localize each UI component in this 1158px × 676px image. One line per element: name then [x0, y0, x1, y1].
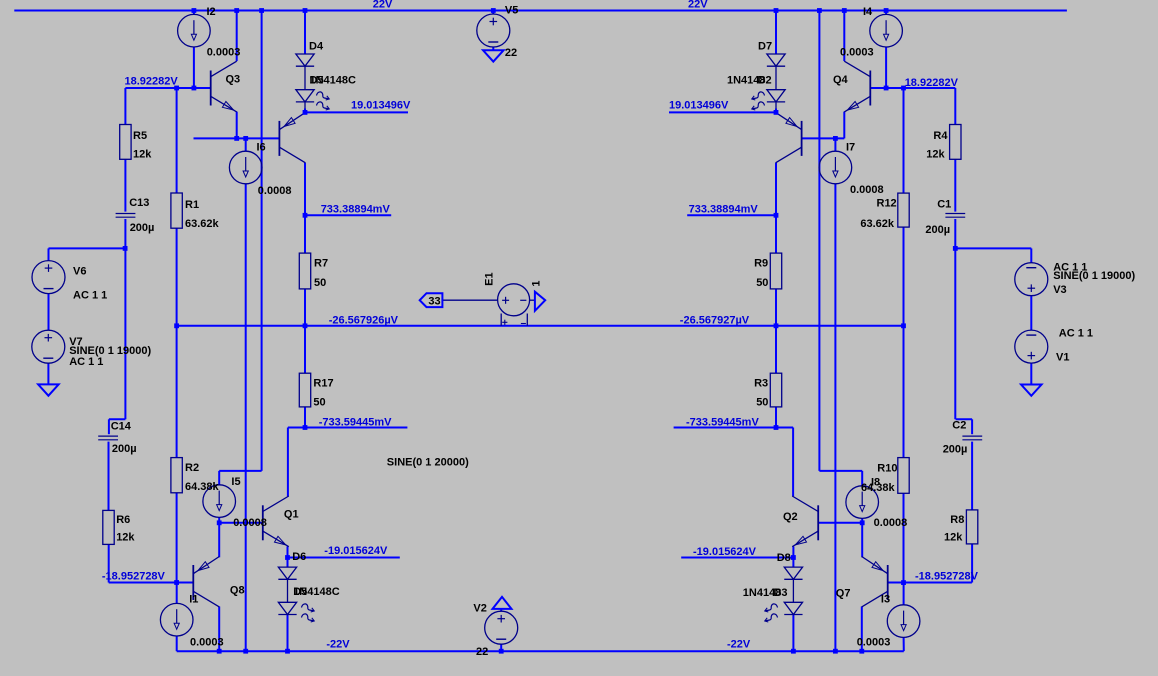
svg-text:I1: I1 [189, 594, 198, 606]
svg-text:-22V: -22V [326, 639, 350, 651]
svg-text:I2: I2 [207, 6, 216, 18]
svg-text:-19.015624V: -19.015624V [324, 545, 388, 557]
svg-text:733.38894mV: 733.38894mV [321, 203, 391, 215]
svg-text:50: 50 [756, 397, 768, 409]
svg-text:AC 1 1: AC 1 1 [1059, 328, 1093, 340]
svg-text:D5: D5 [310, 75, 324, 87]
svg-text:733.38894mV: 733.38894mV [689, 203, 759, 215]
svg-text:D6: D6 [292, 551, 306, 563]
svg-text:18.92282V: 18.92282V [905, 77, 959, 89]
svg-text:V3: V3 [1053, 284, 1066, 296]
svg-text:R1: R1 [185, 199, 199, 211]
svg-text:19.013496V: 19.013496V [669, 100, 729, 112]
svg-text:I4: I4 [863, 6, 873, 18]
svg-text:33: 33 [428, 295, 440, 307]
svg-text:R10: R10 [877, 463, 897, 475]
svg-text:D5: D5 [293, 586, 307, 598]
svg-text:-26.567926µV: -26.567926µV [329, 315, 399, 327]
svg-text:V1: V1 [1056, 352, 1069, 364]
svg-text:-18.952728V: -18.952728V [102, 571, 166, 583]
svg-text:I8: I8 [871, 477, 880, 489]
svg-text:200µ: 200µ [112, 443, 137, 455]
svg-text:0.0003: 0.0003 [190, 637, 224, 649]
svg-text:Q3: Q3 [226, 74, 241, 86]
svg-text:V5: V5 [505, 5, 518, 17]
svg-text:63.62k: 63.62k [860, 218, 895, 230]
svg-text:C1: C1 [937, 199, 951, 211]
svg-text:200µ: 200µ [925, 224, 950, 236]
svg-text:Q1: Q1 [284, 509, 299, 521]
svg-text:200µ: 200µ [130, 222, 155, 234]
svg-text:Q2: Q2 [783, 511, 798, 523]
svg-text:-19.015624V: -19.015624V [693, 546, 757, 558]
svg-text:Q8: Q8 [230, 585, 245, 597]
svg-text:R17: R17 [313, 378, 333, 390]
svg-text:63.62k: 63.62k [185, 218, 220, 230]
svg-text:12k: 12k [926, 149, 945, 161]
svg-text:E1: E1 [484, 272, 496, 285]
svg-text:D7: D7 [758, 41, 772, 53]
svg-text:12k: 12k [133, 149, 152, 161]
svg-text:22V: 22V [688, 0, 708, 11]
svg-text:0.0008: 0.0008 [233, 517, 267, 529]
svg-text:R9: R9 [754, 258, 768, 270]
svg-text:12k: 12k [944, 532, 963, 544]
svg-text:AC 1 1: AC 1 1 [73, 290, 107, 302]
svg-text:64.38k: 64.38k [185, 481, 220, 493]
svg-text:18.92282V: 18.92282V [125, 76, 179, 88]
svg-text:22: 22 [505, 47, 517, 59]
svg-text:22: 22 [476, 646, 488, 658]
svg-text:D8: D8 [777, 552, 791, 564]
svg-text:R6: R6 [116, 514, 130, 526]
svg-text:C13: C13 [129, 197, 149, 209]
svg-text:R3: R3 [754, 378, 768, 390]
svg-text:-733.59445mV: -733.59445mV [686, 416, 759, 428]
svg-text:R8: R8 [950, 514, 964, 526]
svg-text:AC 1 1: AC 1 1 [69, 356, 103, 368]
svg-text:12k: 12k [116, 532, 135, 544]
svg-text:D2: D2 [758, 75, 772, 87]
svg-text:1: 1 [531, 280, 543, 286]
svg-text:50: 50 [313, 397, 325, 409]
svg-text:R5: R5 [133, 130, 147, 142]
svg-text:0.0008: 0.0008 [874, 517, 908, 529]
svg-text:22V: 22V [373, 0, 393, 11]
svg-text:0.0003: 0.0003 [840, 47, 874, 59]
svg-text:R12: R12 [877, 198, 897, 210]
svg-text:R2: R2 [185, 462, 199, 474]
svg-text:I7: I7 [846, 142, 855, 154]
svg-text:0.0008: 0.0008 [258, 185, 292, 197]
svg-text:I3: I3 [881, 594, 890, 606]
svg-text:0.0003: 0.0003 [857, 637, 891, 649]
svg-text:200µ: 200µ [943, 444, 968, 456]
svg-text:D3: D3 [773, 587, 787, 599]
svg-text:C2: C2 [952, 420, 966, 432]
svg-text:0.0008: 0.0008 [850, 184, 884, 196]
svg-text:SINE(0 1 19000): SINE(0 1 19000) [1053, 270, 1135, 282]
svg-text:I5: I5 [231, 476, 240, 488]
svg-text:R7: R7 [314, 258, 328, 270]
svg-text:D4: D4 [309, 41, 324, 53]
svg-text:I6: I6 [257, 142, 266, 154]
svg-text:R4: R4 [933, 130, 948, 142]
svg-text:50: 50 [314, 277, 326, 289]
svg-text:C14: C14 [111, 421, 132, 433]
svg-text:-22V: -22V [727, 639, 751, 651]
svg-text:-26.567927µV: -26.567927µV [680, 315, 750, 327]
svg-text:19.013496V: 19.013496V [351, 100, 411, 112]
svg-text:V6: V6 [73, 266, 86, 278]
svg-text:SINE(0 1 20000): SINE(0 1 20000) [387, 457, 469, 469]
svg-text:V2: V2 [473, 603, 486, 615]
svg-text:0.0003: 0.0003 [207, 47, 241, 59]
svg-text:50: 50 [756, 277, 768, 289]
svg-text:Q7: Q7 [836, 588, 851, 600]
svg-text:Q4: Q4 [833, 74, 849, 86]
svg-text:-18.952728V: -18.952728V [915, 571, 979, 583]
svg-text:-733.59445mV: -733.59445mV [319, 416, 392, 428]
